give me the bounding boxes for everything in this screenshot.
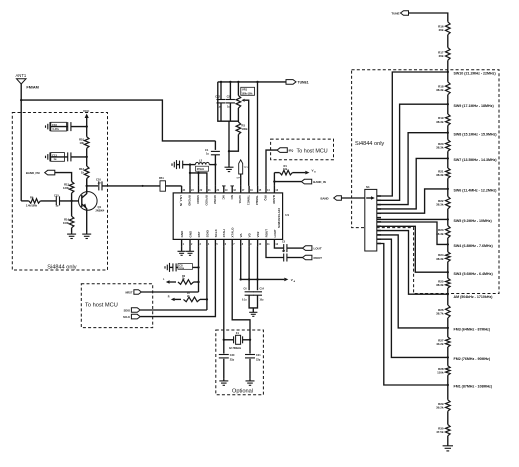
svg-text:IRQ: IRQ xyxy=(264,195,268,201)
svg-text:38.3k: 38.3k xyxy=(436,283,444,287)
svg-text:32.768kHz: 32.768kHz xyxy=(229,347,242,350)
svg-text:GPO1: GPO1 xyxy=(238,195,242,204)
svg-text:38.7k: 38.7k xyxy=(436,312,444,316)
svg-text:GPO: GPO xyxy=(237,178,242,180)
svg-text:R12: R12 xyxy=(64,183,69,187)
svg-text:38.3k: 38.3k xyxy=(436,257,444,261)
svg-text:GND: GND xyxy=(188,230,192,238)
svg-text:39.2k: 39.2k xyxy=(436,406,444,410)
svg-text:SW5 (9.2MHz - 10MHz): SW5 (9.2MHz - 10MHz) xyxy=(454,219,493,223)
svg-text:SCLK: SCLK xyxy=(214,228,218,237)
svg-text:TUNE1: TUNE1 xyxy=(298,81,309,85)
svg-text:1u: 1u xyxy=(227,106,230,109)
svg-text:100k: 100k xyxy=(63,221,69,225)
svg-text:1u: 1u xyxy=(54,158,57,161)
svg-text:BAND: BAND xyxy=(272,195,276,204)
svg-text:SW9 (17.1MHz - 18MHz): SW9 (17.1MHz - 18MHz) xyxy=(454,104,495,108)
svg-text:R9: R9 xyxy=(30,196,34,200)
svg-text:MIXIN: MIXIN xyxy=(196,195,200,203)
svg-text:38.3k: 38.3k xyxy=(436,88,444,92)
svg-text:SW4 (6.8MHz - 7.6MHz): SW4 (6.8MHz - 7.6MHz) xyxy=(454,244,494,248)
svg-text:BAND_FM: BAND_FM xyxy=(26,171,40,175)
svg-text:FB1: FB1 xyxy=(159,177,164,180)
svg-text:LNA_IN: LNA_IN xyxy=(179,195,183,206)
svg-text:NRST: NRST xyxy=(125,290,132,294)
svg-text:SW10 (21.2MHz - 22MHz): SW10 (21.2MHz - 22MHz) xyxy=(454,72,497,76)
svg-text:C2: C2 xyxy=(227,95,231,99)
svg-text:BAND: BAND xyxy=(321,197,329,201)
svg-text:XTALI: XTALI xyxy=(222,229,226,238)
svg-text:SW3 (5.6MHz - 6.4MHz): SW3 (5.6MHz - 6.4MHz) xyxy=(454,272,494,276)
svg-text:To host MCU: To host MCU xyxy=(297,148,328,154)
svg-text:100k: 100k xyxy=(242,127,248,131)
svg-text:RST: RST xyxy=(197,231,201,237)
svg-text:RFVDD: RFVDD xyxy=(204,195,208,206)
svg-text:LOUT: LOUT xyxy=(314,247,322,251)
svg-text:1u: 1u xyxy=(56,205,59,208)
svg-text:C22: C22 xyxy=(215,95,220,99)
svg-text:10k: 10k xyxy=(80,141,85,145)
svg-text:0.1u: 0.1u xyxy=(242,300,247,302)
svg-text:R13: R13 xyxy=(79,167,84,171)
svg-text:FM/AM: FM/AM xyxy=(26,86,38,90)
svg-text:22p: 22p xyxy=(230,359,235,362)
svg-text:SW8 (15.1MHz - 15.9MHz): SW8 (15.1MHz - 15.9MHz) xyxy=(454,132,498,136)
svg-text:270nH: 270nH xyxy=(197,168,204,171)
svg-text:C21: C21 xyxy=(256,354,261,357)
svg-text:2.4k/100k: 2.4k/100k xyxy=(26,205,38,208)
svg-text:20k: 20k xyxy=(439,54,444,58)
svg-text:ROUT: ROUT xyxy=(264,229,268,238)
svg-text:RFGND: RFGND xyxy=(188,195,192,206)
svg-text:Si4844 only: Si4844 only xyxy=(355,141,384,147)
svg-text:SDIO: SDIO xyxy=(205,229,209,237)
svg-text:38.3k: 38.3k xyxy=(436,203,444,207)
svg-text:To host MCU: To host MCU xyxy=(85,303,118,309)
svg-text:VD2: VD2 xyxy=(256,231,260,237)
svg-text:TUNE1: TUNE1 xyxy=(247,195,251,205)
svg-text:SDIO: SDIO xyxy=(124,308,130,312)
svg-text:20k: 20k xyxy=(439,28,444,32)
svg-text:SW7 (13.5MHz - 14.3MHz): SW7 (13.5MHz - 14.3MHz) xyxy=(454,158,498,162)
svg-text:0.47u: 0.47u xyxy=(53,128,60,131)
svg-text:1k: 1k xyxy=(81,171,84,175)
svg-text:C14: C14 xyxy=(260,288,265,291)
svg-text:43.2k: 43.2k xyxy=(436,342,444,346)
svg-text:XTALO: XTALO xyxy=(231,227,235,238)
svg-text:U1: U1 xyxy=(285,213,289,217)
svg-text:GND: GND xyxy=(180,230,184,238)
svg-text:V: V xyxy=(291,278,293,282)
svg-text:R14: R14 xyxy=(64,218,69,222)
svg-text:R3: R3 xyxy=(242,124,246,128)
svg-text:10u: 10u xyxy=(260,300,265,302)
svg-text:SCLK: SCLK xyxy=(123,315,130,319)
svg-text:TUNE2: TUNE2 xyxy=(255,195,259,205)
svg-text:.1u: .1u xyxy=(97,182,101,185)
svg-text:2N3904: 2N3904 xyxy=(96,210,105,213)
svg-text:VCC: VCC xyxy=(83,109,90,113)
svg-text:110k: 110k xyxy=(437,371,444,375)
svg-text:Si4844 only: Si4844 only xyxy=(47,264,76,270)
svg-text:S1: S1 xyxy=(366,185,370,189)
svg-text:22p: 22p xyxy=(256,359,261,362)
svg-text:Optional: Optional xyxy=(232,389,253,395)
svg-text:Si4840/44-A10: Si4840/44-A10 xyxy=(277,207,281,228)
svg-text:R10: R10 xyxy=(79,138,84,142)
svg-text:IRQ: IRQ xyxy=(289,149,294,153)
svg-text:FM1 (87MHz - 108MHz): FM1 (87MHz - 108MHz) xyxy=(454,385,493,389)
svg-text:100k-10%: 100k-10% xyxy=(242,92,254,95)
svg-text:38.3k: 38.3k xyxy=(436,146,444,150)
svg-text:FM3 (64MHz - 87MHz): FM3 (64MHz - 87MHz) xyxy=(454,328,491,332)
svg-text:38.3k: 38.3k xyxy=(436,120,444,124)
svg-text:LOUT: LOUT xyxy=(273,229,277,237)
svg-text:TUNE: TUNE xyxy=(391,11,399,15)
svg-text:1u: 1u xyxy=(206,153,209,156)
svg-text:38.3k: 38.3k xyxy=(436,173,444,177)
svg-text:SW6 (11.4MHz - 12.2MHz): SW6 (11.4MHz - 12.2MHz) xyxy=(454,189,498,193)
svg-text:RFIN2: RFIN2 xyxy=(213,195,217,204)
svg-text:1u: 1u xyxy=(218,106,221,109)
svg-text:C20: C20 xyxy=(230,354,235,357)
svg-text:10k: 10k xyxy=(283,168,288,171)
svg-text:ANT1: ANT1 xyxy=(16,73,27,78)
svg-text:47.5k: 47.5k xyxy=(436,430,444,434)
svg-text:R: R xyxy=(168,295,170,298)
svg-text:120k: 120k xyxy=(63,186,69,190)
svg-text:ROUT: ROUT xyxy=(314,256,323,260)
svg-text:C15: C15 xyxy=(54,194,59,198)
svg-text:BAND_IN: BAND_IN xyxy=(313,180,325,184)
svg-text:Q1: Q1 xyxy=(98,205,102,209)
svg-text:AM (504kHz - 1710kHz): AM (504kHz - 1710kHz) xyxy=(454,295,494,299)
svg-text:VR1: VR1 xyxy=(242,88,248,92)
svg-text:C1: C1 xyxy=(205,148,209,152)
svg-text:0.1u: 0.1u xyxy=(179,267,184,270)
svg-text:FM2 (76MHz - 90MHz): FM2 (76MHz - 90MHz) xyxy=(454,357,491,361)
